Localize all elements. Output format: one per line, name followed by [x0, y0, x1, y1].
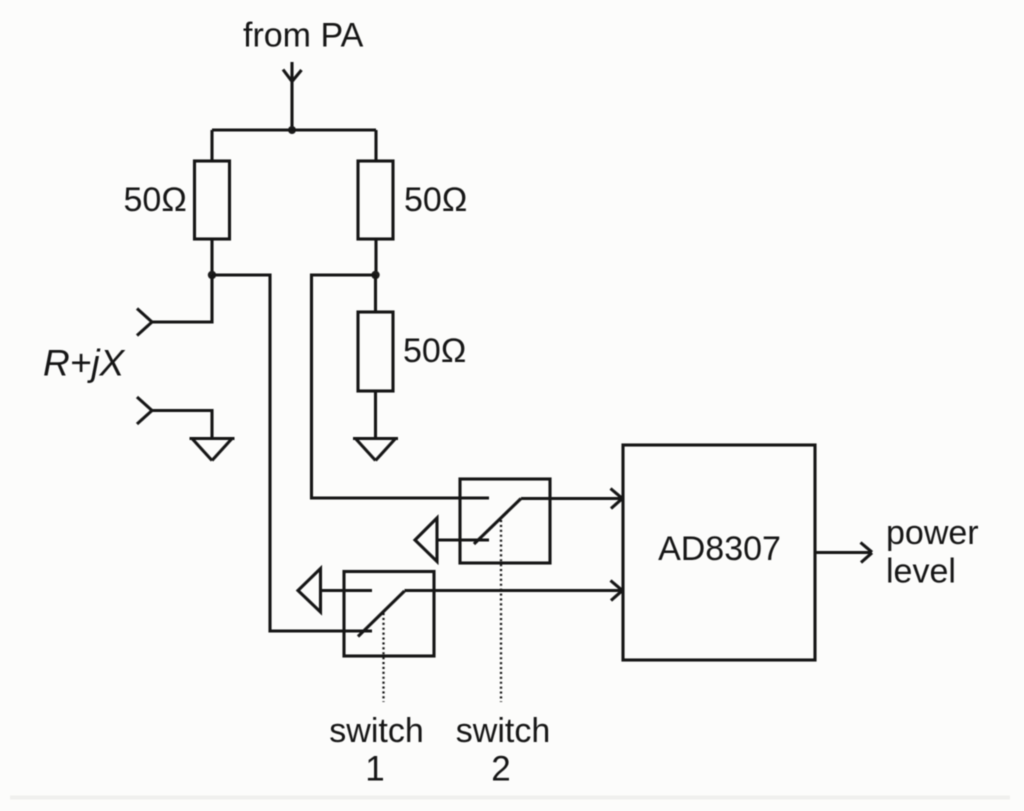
wire AD8307 output with arrowhead — [815, 543, 872, 563]
switch 2 lever — [474, 499, 521, 545]
wire node A to switch1 feed (long run) — [212, 275, 372, 631]
svg-text:power: power — [886, 514, 979, 552]
wire left branch down to R1 — [210, 130, 213, 161]
resistor R2 50ohm body — [358, 161, 393, 239]
switch 1 control dotted line — [382, 613, 384, 702]
switch 2 control dotted line — [500, 520, 502, 702]
wire switch 1 output to AD8307 with arrowhead — [405, 581, 623, 601]
port connector 1 (fork) — [137, 309, 152, 336]
svg-text:AD8307: AD8307 — [658, 530, 781, 568]
switch 2 left port triangle — [415, 518, 437, 562]
resistor R3 50ohm body — [358, 312, 393, 391]
svg-text:2: 2 — [491, 750, 510, 789]
ground under R3 — [353, 439, 398, 461]
svg-text:switch: switch — [329, 712, 423, 750]
resistor R1 50ohm body — [195, 161, 230, 239]
op-amp U1 AD8307 box — [623, 445, 815, 660]
svg-text:50Ω: 50Ω — [403, 332, 466, 370]
wire switch 2 output to AD8307 with arrowhead — [521, 489, 622, 509]
svg-text:R+jX: R+jX — [43, 343, 126, 384]
wire R2 bottom to node B — [374, 239, 377, 275]
svg-text:switch: switch — [456, 712, 550, 750]
switch 2 box — [460, 479, 550, 563]
switch 1 lever — [358, 591, 405, 637]
ground under port 2 — [190, 439, 235, 461]
port connector 2 (fork) — [137, 397, 152, 424]
node B junction — [371, 271, 379, 279]
svg-text:50Ω: 50Ω — [124, 181, 187, 219]
wire node B to switch2 feed (long run) — [312, 275, 490, 498]
switch 1 left port triangle — [298, 569, 321, 613]
svg-text:1: 1 — [365, 750, 384, 789]
switch 1 box — [344, 572, 434, 657]
svg-text:level: level — [886, 553, 956, 591]
wire right branch down to R2 — [374, 130, 377, 161]
wire node B down to R3 — [374, 275, 377, 312]
wire port 2 to ground — [152, 411, 212, 438]
input arrow from PA — [283, 62, 302, 130]
wire R3 bottom to ground — [374, 391, 377, 437]
wire top bus — [212, 128, 376, 131]
wire switch 2 triangle to contact — [437, 538, 489, 541]
svg-text:50Ω: 50Ω — [404, 181, 467, 219]
node top junction — [288, 126, 296, 134]
node A junction — [208, 271, 216, 279]
wire switch 1 triangle to contact — [321, 589, 373, 592]
wire node A down to port 1 — [152, 275, 212, 322]
scan artifact band bottom — [10, 796, 1010, 800]
svg-text:from PA: from PA — [243, 17, 364, 55]
wire R1 bottom to node A — [210, 239, 213, 275]
